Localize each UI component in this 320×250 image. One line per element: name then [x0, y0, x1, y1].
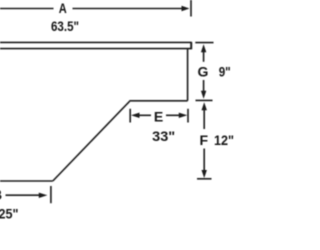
dimension G top tick — [195, 42, 213, 44]
dimension A extension tick — [190, 0, 192, 17]
svg-text:63.5": 63.5" — [51, 18, 79, 34]
dimension A line right segment — [73, 8, 184, 10]
svg-text:12": 12" — [214, 132, 234, 148]
dimension B line — [6, 194, 40, 196]
dimension F line upper segment — [203, 110, 205, 129]
dimension G line upper segment — [203, 52, 205, 62]
step extension tick (G/F boundary) — [196, 99, 213, 101]
dimension E left tick — [129, 109, 131, 123]
svg-text:9": 9" — [219, 64, 231, 80]
dimension G line lower segment — [203, 80, 205, 92]
dimension A right arrowhead — [182, 6, 190, 11]
dimension F down arrowhead — [202, 170, 207, 178]
svg-text:25": 25" — [0, 205, 19, 221]
dimension B arrowhead — [39, 193, 48, 198]
lid bottom line — [0, 48, 192, 50]
bottom line — [0, 180, 53, 182]
svg-text:B: B — [0, 186, 2, 202]
lid top line — [0, 41, 192, 43]
diagonal front edge — [53, 101, 130, 181]
box right edge — [187, 49, 189, 101]
dimension E right tick — [187, 109, 189, 123]
svg-text:33": 33" — [152, 128, 175, 144]
lid right end lip — [190, 42, 192, 49]
dimension E right arrowhead — [179, 113, 188, 118]
dimension G up arrowhead — [201, 44, 206, 52]
dimension G down arrowhead — [201, 91, 206, 99]
dimension E line right segment — [166, 114, 179, 116]
dimension E line left segment — [140, 114, 152, 116]
svg-text:E: E — [154, 108, 163, 124]
dimension F line lower segment — [203, 149, 205, 172]
dimension B tick — [50, 186, 52, 203]
svg-text:F: F — [200, 132, 209, 148]
svg-text:G: G — [198, 64, 209, 80]
dimension F up arrowhead — [202, 102, 207, 110]
dimension E left arrowhead — [131, 113, 140, 118]
dimension F bottom tick — [197, 178, 212, 180]
step bottom line — [129, 100, 187, 102]
svg-text:A: A — [59, 0, 67, 16]
dimension A line left segment — [0, 8, 54, 10]
